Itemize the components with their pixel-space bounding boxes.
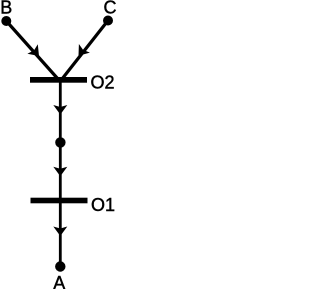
middle condition dot	[55, 137, 65, 147]
node A condition dot	[55, 261, 65, 271]
event bar O2	[30, 77, 87, 83]
svg-text:O1: O1	[91, 195, 115, 215]
arrowhead C to O2	[79, 44, 90, 56]
arrowhead O2 to middle dot	[53, 105, 67, 115]
svg-text:C: C	[104, 0, 117, 18]
wire middle dot to O1	[59, 148, 62, 199]
node B condition dot	[1, 16, 11, 26]
arrowhead middle dot to O1	[53, 167, 67, 177]
arrowhead B to O2	[27, 44, 39, 56]
svg-text:B: B	[0, 0, 12, 18]
wire O2 to middle dot	[59, 83, 62, 138]
svg-text:A: A	[53, 273, 65, 289]
arrowhead O1 to A	[53, 227, 67, 237]
node C condition dot	[103, 16, 113, 26]
wire O1 to A	[59, 203, 62, 262]
event bar O1	[31, 198, 88, 204]
svg-text:O2: O2	[91, 73, 115, 93]
wire C to O2	[62, 21, 108, 80]
wire B to O2	[6, 21, 58, 79]
